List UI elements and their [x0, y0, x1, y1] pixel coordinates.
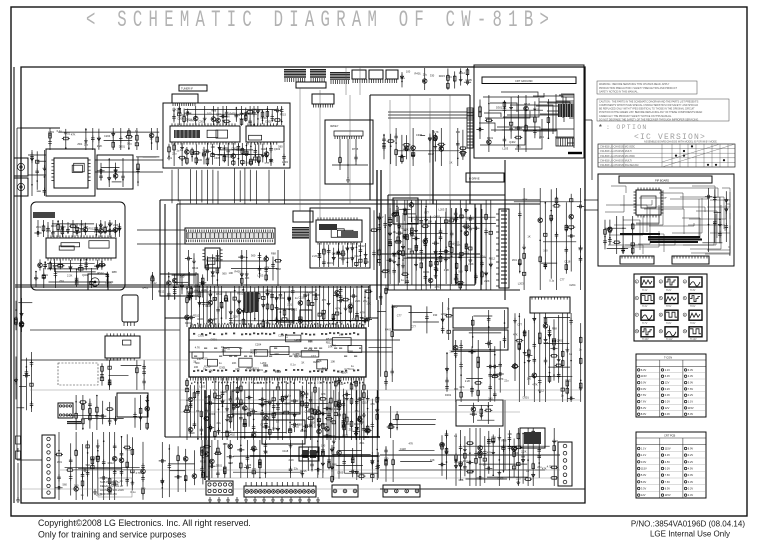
svg-text:10K: 10K — [429, 263, 434, 267]
svg-text:Q402: Q402 — [391, 305, 398, 309]
svg-text:10K: 10K — [272, 427, 277, 431]
svg-text:47K: 47K — [322, 249, 327, 253]
parts below audio block — [34, 268, 117, 288]
svg-text:C77: C77 — [424, 211, 429, 215]
svg-text:R512: R512 — [158, 290, 165, 294]
svg-text:12V: 12V — [665, 406, 670, 410]
AV jack J201 — [14, 158, 28, 176]
svg-text:R215: R215 — [201, 357, 208, 361]
svg-text:H.3V: H.3V — [690, 289, 696, 292]
svg-text:ZD1: ZD1 — [36, 225, 41, 229]
svg-text:COMPONENTS WHICH HAVE SPECIAL: COMPONENTS WHICH HAVE SPECIAL CHARACTERI… — [599, 104, 698, 107]
svg-text:4.7K: 4.7K — [522, 197, 528, 201]
svg-text:10K: 10K — [229, 271, 234, 275]
svg-text:H.12V: H.12V — [690, 338, 697, 341]
svg-text:R612: R612 — [192, 266, 199, 270]
svg-text:R401: R401 — [415, 72, 422, 76]
svg-text:ZD1: ZD1 — [464, 208, 469, 212]
svg-text:4.7K: 4.7K — [459, 385, 465, 389]
parts power stage — [445, 340, 509, 402]
svg-text:CRT PCB: CRT PCB — [664, 434, 676, 438]
svg-text:D301: D301 — [216, 463, 223, 467]
svg-text:6.3V: 6.3V — [641, 368, 647, 372]
svg-text:L203: L203 — [258, 273, 264, 277]
svg-text:D301: D301 — [219, 366, 226, 370]
IC302 eeprom — [202, 248, 222, 268]
speaker jack — [88, 274, 108, 290]
svg-text:CW-81B LG-CHASSIS MULTI: CW-81B LG-CHASSIS MULTI — [600, 159, 632, 162]
PIP connector CN701 — [620, 256, 654, 264]
svg-text:: OPTION: : OPTION — [606, 124, 648, 131]
svg-text:22u: 22u — [217, 421, 222, 425]
svg-text:H.10V: H.10V — [642, 338, 649, 341]
label H-DRIVE — [466, 173, 504, 182]
svg-text:PIP BOARD: PIP BOARD — [655, 178, 669, 182]
svg-text:100: 100 — [384, 457, 389, 461]
svg-text:ZD1: ZD1 — [512, 258, 517, 262]
svg-text:1K: 1K — [221, 345, 224, 349]
svg-text:6.3V: 6.3V — [641, 406, 647, 410]
parts left of chassis connector — [159, 442, 205, 498]
svg-text:1K: 1K — [244, 114, 247, 118]
svg-text:115V: 115V — [665, 493, 671, 497]
svg-text:0.1u: 0.1u — [341, 252, 347, 256]
svg-text:C204: C204 — [255, 343, 262, 347]
svg-text:2.2K: 2.2K — [484, 279, 490, 283]
svg-text:MAIN B+ 115V: MAIN B+ 115V — [100, 492, 117, 496]
PIP left parts — [603, 216, 634, 255]
svg-text:R215: R215 — [439, 74, 446, 78]
svg-text:330: 330 — [198, 158, 203, 162]
svg-text:47K: 47K — [370, 402, 375, 406]
svg-text:L203: L203 — [454, 241, 460, 245]
svg-text:Only for training and service: Only for training and service purposes — [38, 530, 187, 540]
regulator parts — [100, 360, 146, 390]
IC601 audio amplifier — [46, 235, 116, 260]
main chassis connector P801 (long) — [244, 482, 316, 497]
svg-text:D301: D301 — [496, 105, 503, 109]
svg-text:560: 560 — [86, 463, 91, 467]
svg-text:WARNING : BEFORE SERVICING THI: WARNING : BEFORE SERVICING THIS CHASSIS … — [599, 83, 670, 86]
svg-text:C204: C204 — [512, 451, 519, 455]
svg-text:1K: 1K — [150, 136, 153, 140]
voltage table 1 — [636, 354, 706, 417]
svg-text:R512: R512 — [326, 341, 333, 345]
svg-text:0.0V: 0.0V — [665, 412, 671, 416]
svg-text:3.3V: 3.3V — [641, 487, 647, 491]
svg-text:560: 560 — [458, 269, 463, 273]
tuner bottom parts row — [167, 143, 288, 166]
svg-text:4.7K: 4.7K — [360, 311, 366, 315]
small shield box — [293, 211, 313, 222]
svg-text:0.1u: 0.1u — [400, 76, 406, 80]
svg-text:C118: C118 — [256, 381, 263, 385]
svg-text:C305: C305 — [198, 120, 205, 124]
svg-text:R512: R512 — [337, 382, 344, 386]
wire bus center-right — [380, 160, 520, 300]
svg-text:R88: R88 — [332, 463, 337, 467]
heavy ground stub — [568, 152, 582, 154]
signal lines to CRT block — [388, 112, 474, 118]
svg-text:LGE Internal Use Only: LGE Internal Use Only — [650, 530, 730, 539]
shield box mid-left — [160, 274, 198, 296]
svg-text:R612: R612 — [108, 461, 115, 465]
svg-text:R612: R612 — [538, 388, 545, 392]
svg-text:L203: L203 — [234, 113, 240, 117]
svg-text:560: 560 — [278, 145, 283, 149]
svg-text:1K: 1K — [301, 361, 304, 365]
svg-text:0.1u: 0.1u — [127, 142, 133, 146]
IC version table — [598, 144, 735, 167]
svg-text:0.1u: 0.1u — [60, 225, 66, 229]
svg-text:SAFETY NOTICE IN THIS MANUAL.: SAFETY NOTICE IN THIS MANUAL. — [599, 91, 639, 94]
svg-text:C118: C118 — [564, 260, 571, 264]
svg-text:4.7K: 4.7K — [435, 285, 441, 289]
svg-text:L203: L203 — [199, 384, 205, 388]
relay box — [117, 393, 148, 417]
ground row below chassis connector — [208, 497, 320, 502]
svg-text:5.0V: 5.0V — [641, 473, 647, 477]
shield box above tuner — [172, 94, 198, 103]
svg-text:R88: R88 — [552, 326, 557, 330]
svg-text:4.7K: 4.7K — [364, 260, 370, 264]
svg-text:12V: 12V — [665, 381, 670, 385]
svg-text:115V: 115V — [641, 467, 647, 471]
svg-text:R512: R512 — [89, 227, 96, 231]
AV switch box — [46, 149, 95, 196]
svg-text:560: 560 — [392, 254, 397, 258]
parts lower center — [200, 440, 326, 479]
svg-text:4.7K: 4.7K — [136, 471, 142, 475]
svg-text:7.6V: 7.6V — [688, 387, 694, 391]
svg-text:C305: C305 — [221, 390, 228, 394]
main power connector P601 (vertical) — [42, 435, 55, 498]
svg-text:8.9V: 8.9V — [641, 480, 647, 484]
tuner top parts row — [172, 106, 286, 126]
parts right of tuner — [382, 128, 467, 166]
svg-text:10K: 10K — [220, 306, 225, 310]
parts bottom mid — [330, 445, 380, 483]
svg-text:0.2V: 0.2V — [665, 387, 671, 391]
svg-text:D301: D301 — [265, 120, 272, 124]
vertical drops from top bus — [300, 67, 450, 220]
svg-text:560: 560 — [74, 484, 79, 488]
svg-text:560: 560 — [141, 487, 146, 491]
svg-text:6.3V: 6.3V — [665, 374, 671, 378]
svg-text:115V: 115V — [665, 447, 671, 451]
svg-text:ZD1: ZD1 — [287, 303, 292, 307]
svg-text:1.1V: 1.1V — [641, 447, 647, 451]
svg-text:Q402: Q402 — [229, 433, 236, 437]
svg-text:10K: 10K — [507, 432, 512, 436]
svg-text:R88: R88 — [112, 270, 117, 274]
svg-text:H-DRIVE: H-DRIVE — [469, 177, 480, 181]
svg-text:C118: C118 — [400, 447, 407, 451]
svg-text:C77: C77 — [311, 354, 316, 358]
left margin parts lower — [14, 352, 33, 412]
crt ground parts — [476, 95, 549, 152]
main board connector P301 (ribbon) — [185, 228, 275, 244]
connector P802 — [332, 485, 358, 497]
svg-text:560: 560 — [251, 254, 256, 258]
svg-text:4.5V: 4.5V — [665, 460, 671, 464]
IC201 AV switch — [51, 158, 90, 188]
svg-text:4.7K: 4.7K — [195, 346, 201, 350]
svg-text:L203: L203 — [256, 108, 262, 112]
svg-text:C305: C305 — [416, 133, 423, 137]
svg-text:47K: 47K — [409, 442, 414, 446]
svg-text:1K: 1K — [527, 235, 530, 239]
svg-text:22u: 22u — [334, 407, 339, 411]
svg-text:4.7K: 4.7K — [335, 306, 341, 310]
svg-text:2.2K: 2.2K — [403, 228, 409, 232]
transistor block — [393, 306, 411, 330]
svg-text:1K: 1K — [241, 288, 244, 292]
svg-text:4.7K: 4.7K — [414, 218, 420, 222]
IC101 IF amp — [170, 123, 240, 144]
svg-text:2.2K: 2.2K — [521, 450, 527, 454]
svg-text:4.7K: 4.7K — [252, 430, 258, 434]
jumper block box — [299, 447, 319, 461]
svg-text:560: 560 — [63, 483, 68, 487]
svg-text:330: 330 — [274, 352, 279, 356]
wires tuner to center frame — [172, 168, 285, 204]
svg-text:P/NO.:3854VA0196D (08.04.14): P/NO.:3854VA0196D (08.04.14) — [631, 520, 745, 529]
svg-text:560: 560 — [195, 361, 200, 365]
svg-text:6.3V: 6.3V — [688, 368, 694, 372]
svg-text:Q402: Q402 — [142, 285, 149, 289]
svg-text:D301: D301 — [523, 396, 530, 400]
CRT ground block frame — [474, 65, 584, 158]
svg-text:6.3V: 6.3V — [665, 487, 671, 491]
svg-text:R215: R215 — [300, 429, 307, 433]
svg-text:R88: R88 — [459, 478, 464, 482]
power input parts — [55, 432, 146, 500]
connector P101 (top edge) — [284, 69, 326, 82]
svg-text:Q402: Q402 — [509, 140, 516, 144]
svg-text:R88: R88 — [223, 442, 228, 446]
svg-text:DO NOT DEGRADE THE SAFETY OF T: DO NOT DEGRADE THE SAFETY OF THE RECEIVE… — [599, 118, 699, 121]
snubber parts — [459, 402, 495, 424]
svg-text:L203: L203 — [48, 130, 54, 134]
svg-text:Q402: Q402 — [434, 215, 441, 219]
svg-text:47K: 47K — [513, 333, 518, 337]
svg-text:12V: 12V — [641, 493, 646, 497]
svg-text:7.6V: 7.6V — [665, 480, 671, 484]
svg-text:C77: C77 — [103, 225, 108, 229]
PIP wiring — [605, 186, 730, 256]
svg-text:10K: 10K — [172, 107, 177, 111]
PIP heavy bus — [620, 234, 702, 242]
PIP right parts — [702, 188, 728, 252]
svg-text:R215: R215 — [383, 268, 390, 272]
svg-text:D301: D301 — [445, 393, 452, 397]
V out box 2 — [453, 330, 508, 350]
parts above power area — [66, 395, 150, 430]
flyback connector row — [530, 297, 570, 313]
svg-text:1.1V: 1.1V — [641, 453, 647, 457]
svg-text:1K: 1K — [483, 463, 486, 467]
connector P104 below top edge — [312, 94, 334, 108]
svg-text:R88: R88 — [271, 252, 276, 256]
svg-text:R512: R512 — [377, 215, 384, 219]
svg-text:H.5V: H.5V — [666, 305, 672, 308]
svg-text:2.2K: 2.2K — [233, 314, 239, 318]
svg-text:0.2V: 0.2V — [688, 453, 694, 457]
svg-text:< SCHEMATIC DIAGRAM OF CW-81B>: < SCHEMATIC DIAGRAM OF CW-81B> — [86, 7, 555, 33]
wire bus frame around IC501 area — [165, 204, 380, 437]
option box (dashed) — [58, 363, 98, 385]
svg-text:100: 100 — [205, 156, 210, 160]
svg-text:R401: R401 — [327, 261, 334, 265]
svg-text:SUB POWER B+: SUB POWER B+ — [100, 480, 120, 484]
svg-text:5.0V: 5.0V — [688, 412, 694, 416]
svg-text:47K: 47K — [269, 160, 274, 164]
svg-text:H.2V: H.2V — [666, 289, 672, 292]
svg-text:0.1u: 0.1u — [355, 409, 361, 413]
svg-text:C77: C77 — [411, 325, 416, 329]
shielded component above IC501 — [244, 292, 258, 312]
X-ray protect box — [393, 198, 418, 224]
svg-text:1.1V: 1.1V — [688, 400, 694, 404]
svg-text:0.0V: 0.0V — [688, 473, 694, 477]
svg-text:C118: C118 — [493, 373, 500, 377]
svg-text:ZD1: ZD1 — [349, 428, 354, 432]
audio amplifier block frame — [31, 202, 125, 290]
connector P103 (top edge right) — [352, 70, 398, 83]
heat sink TDA (tall) — [496, 209, 509, 288]
svg-text:0.1u: 0.1u — [410, 234, 416, 238]
pin comb left of CRT block — [467, 108, 473, 148]
svg-text:R88: R88 — [348, 349, 353, 353]
svg-text:2.2K: 2.2K — [355, 299, 361, 303]
svg-text:H.8V: H.8V — [666, 322, 672, 325]
svg-text:10K: 10K — [245, 276, 250, 280]
svg-text:C118: C118 — [189, 431, 196, 435]
jumper bar — [67, 421, 81, 425]
svg-text:H.9V: H.9V — [690, 322, 696, 325]
svg-text:R612: R612 — [150, 281, 157, 285]
svg-text:R401: R401 — [385, 328, 392, 332]
parts under ribbon connector — [180, 250, 282, 286]
wire bus left side — [21, 200, 232, 437]
warning note box — [597, 81, 697, 94]
bus wires top center — [15, 95, 540, 287]
svg-text:330: 330 — [194, 284, 199, 288]
connector P803 — [383, 485, 420, 497]
svg-text:7.6V: 7.6V — [641, 400, 647, 404]
IC603 op-amp (8-pin DIP) — [58, 403, 73, 418]
svg-text:2.2K: 2.2K — [468, 262, 474, 266]
svg-text:CW-81B LG-CHASSIS MC-059C: CW-81B LG-CHASSIS MC-059C — [600, 155, 635, 158]
svg-text:D301: D301 — [42, 273, 49, 277]
svg-text:330: 330 — [430, 74, 435, 78]
ceramic filter group (striped) — [292, 227, 309, 239]
wire bus bottom right — [240, 400, 560, 470]
svg-text:D301: D301 — [423, 270, 430, 274]
svg-text:330: 330 — [310, 421, 315, 425]
svg-text:ZD1: ZD1 — [167, 156, 172, 160]
deflection output parts — [438, 428, 559, 486]
svg-text:0.1u: 0.1u — [290, 363, 296, 367]
parts above main frame — [400, 68, 472, 90]
label TU101 TUNER — [179, 85, 207, 91]
svg-text:R401: R401 — [235, 270, 242, 274]
svg-text:2.4V: 2.4V — [688, 493, 694, 497]
svg-text:0.1u: 0.1u — [196, 409, 202, 413]
CRT socket pin block — [558, 104, 574, 117]
svg-text:7.6V: 7.6V — [665, 473, 671, 477]
svg-text:CRT GROUND: CRT GROUND — [515, 79, 533, 83]
svg-text:2.2K: 2.2K — [97, 144, 103, 148]
svg-text:L203: L203 — [502, 147, 508, 151]
sound trap parts — [97, 158, 124, 187]
main chassis connector P801a — [206, 481, 233, 495]
svg-text:R512: R512 — [459, 71, 466, 75]
svg-text:R88: R88 — [263, 363, 268, 367]
svg-text:C204: C204 — [104, 134, 111, 138]
svg-text:0.2V: 0.2V — [688, 393, 694, 397]
waveform chart box — [634, 274, 707, 341]
svg-text:D301: D301 — [487, 136, 494, 140]
svg-text:R401: R401 — [321, 422, 328, 426]
svg-text:100: 100 — [308, 339, 313, 343]
SIF discriminator box — [232, 390, 300, 414]
svg-text:10K: 10K — [211, 145, 216, 149]
svg-text:560: 560 — [579, 246, 584, 250]
label PIP BOARD — [619, 176, 712, 183]
svg-text:8.9V: 8.9V — [688, 447, 694, 451]
svg-text:330: 330 — [202, 149, 207, 153]
svg-text:47K: 47K — [71, 133, 76, 137]
svg-text:ZD1: ZD1 — [46, 229, 51, 233]
svg-text:3.3V: 3.3V — [665, 453, 671, 457]
svg-text:IR/KEY: IR/KEY — [330, 124, 339, 128]
svg-text:L203: L203 — [446, 75, 452, 79]
svg-text:10K: 10K — [263, 451, 268, 455]
svg-text:2.2K: 2.2K — [465, 379, 471, 383]
svg-text:C204: C204 — [261, 116, 268, 120]
CRT board connector P901 (vertical) — [558, 442, 572, 486]
svg-text:L203: L203 — [439, 208, 445, 212]
svg-text:0.2V: 0.2V — [688, 487, 694, 491]
svg-text:330: 330 — [433, 313, 438, 317]
IC602 regulator — [105, 333, 140, 360]
svg-text:D301: D301 — [119, 145, 126, 149]
svg-text:1.1V: 1.1V — [665, 368, 671, 372]
svg-text:L203: L203 — [518, 281, 524, 285]
svg-text:CW-81B LG-CHASSIS MC-059C: CW-81B LG-CHASSIS MC-059C — [600, 146, 635, 149]
svg-text:100: 100 — [543, 249, 548, 253]
svg-text:C305: C305 — [250, 348, 257, 352]
svg-text:0.1u: 0.1u — [354, 254, 360, 258]
svg-text:10K: 10K — [309, 424, 314, 428]
parts column mid-left — [142, 272, 208, 301]
svg-text:1K: 1K — [120, 479, 123, 483]
V out box — [453, 308, 508, 328]
parts lower center 2 — [310, 390, 381, 480]
svg-text:L203: L203 — [282, 160, 288, 164]
svg-text:PRODUCTION PRECAUTION / SAFETY: PRODUCTION PRECAUTION / SAFETY PRECAUTIO… — [599, 87, 678, 90]
svg-text:10K: 10K — [366, 301, 371, 305]
svg-text:2.2K: 2.2K — [67, 274, 73, 278]
svg-text:22u: 22u — [504, 379, 509, 383]
svg-text:4.7K: 4.7K — [498, 377, 504, 381]
svg-text:0.0V: 0.0V — [641, 460, 647, 464]
svg-text:H.1V: H.1V — [642, 289, 648, 292]
micom surrounding parts — [312, 243, 369, 267]
AV input parts — [30, 150, 46, 196]
